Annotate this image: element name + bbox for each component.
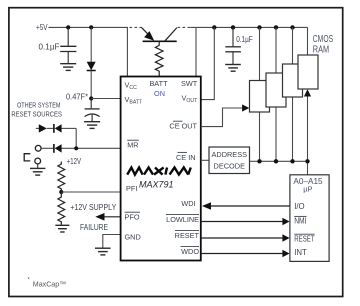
resistor R3 (base of Q1 to BATT ON): [155, 41, 163, 76]
RAM box 2: [266, 73, 286, 107]
wire SWT drop: [195, 27, 197, 76]
wire VBATT to IC: [91, 98, 120, 100]
svg-text:0.47F*: 0.47F*: [66, 92, 88, 101]
svg-text:GND: GND: [125, 233, 141, 242]
wire chip-enable bus: [250, 161, 308, 175]
junction dot bus 3: [290, 159, 294, 163]
svg-text:MR: MR: [127, 141, 138, 150]
diode D1 (vertical, pointing down): [87, 27, 96, 98]
svg-text:MaxCap™: MaxCap™: [33, 279, 67, 288]
RAM box 3: [283, 64, 303, 97]
wire WDO to INT with arrow: [201, 250, 290, 257]
junction dot PFI node: [59, 190, 63, 194]
wire reset sources upper line: [36, 128, 76, 148]
junction dot bus 1: [257, 159, 261, 163]
svg-text:+5V: +5V: [36, 23, 48, 32]
pin PFO label: [125, 212, 141, 221]
wire CE OUT with arrow: [201, 104, 249, 126]
capacitor C2 0.47F (polarized): [85, 99, 100, 122]
diode D2 (pointing right): [39, 124, 47, 132]
ground for R2: [55, 225, 69, 232]
junction dot bus 4: [305, 159, 309, 163]
svg-text:RAM: RAM: [313, 44, 329, 55]
junction dot C3 tap: [231, 25, 235, 29]
diode D3 (pointing left, shared bar): [54, 124, 62, 133]
svg-text:MAX791: MAX791: [139, 180, 174, 190]
node VBATT junction dot: [89, 96, 93, 100]
svg-text:CMOS: CMOS: [313, 34, 333, 45]
pin LOWLINE label: [166, 214, 199, 223]
svg-text:RESET: RESET: [175, 231, 200, 240]
svg-text:+12V SUPPLY: +12V SUPPLY: [70, 203, 117, 212]
transistor Q1 emitter dashed wire: [130, 26, 142, 28]
svg-text:I/O: I/O: [294, 202, 304, 211]
svg-text:NMI: NMI: [294, 217, 306, 226]
junction dot at diode tap: [89, 25, 93, 29]
svg-text:µP: µP: [303, 184, 312, 193]
svg-text:SWT: SWT: [181, 79, 198, 88]
wire RAM power drops: [260, 27, 308, 80]
capacitor C3 0.1uF: [225, 27, 241, 64]
svg-text:PFI: PFI: [126, 184, 137, 193]
svg-text:RESET: RESET: [294, 234, 315, 243]
ground for C3: [225, 65, 241, 72]
wire WDI with arrow: [202, 202, 290, 209]
pin RESET label: [175, 231, 200, 240]
wire VOUT riser: [201, 27, 214, 99]
wire CE IN: [201, 159, 209, 161]
wire PFI: [61, 191, 120, 193]
ADDRESS DECODE box: [209, 147, 250, 174]
junction dot MR node: [74, 146, 78, 150]
ground for C2: [84, 122, 100, 129]
logo MAXIM: [127, 168, 188, 175]
wire RAM chip-enable drops: [260, 95, 308, 162]
svg-text:0.1µF: 0.1µF: [39, 42, 60, 51]
wire PFO with arrow: [95, 213, 120, 221]
transistor Q1: [142, 27, 177, 41]
junction dot RAM3 tap: [290, 25, 294, 29]
junction dot VOUT riser: [212, 25, 216, 29]
pin RESET label (uP): [294, 234, 315, 243]
pin CE OUT label: [169, 121, 197, 130]
pin NMI label: [294, 216, 306, 225]
capacitor C1 0.1uF: [60, 27, 76, 63]
svg-text:CE OUT: CE OUT: [169, 122, 197, 131]
wire RESET with arrow: [201, 234, 290, 241]
resistor R1: [58, 162, 65, 192]
wire collector dashed: [178, 26, 191, 28]
wire +5V rail left segment: [49, 26, 128, 28]
svg-text:WDO: WDO: [181, 247, 199, 256]
svg-text:DECODE: DECODE: [214, 162, 246, 171]
wire GND pin: [103, 235, 121, 248]
wire LOWLINE to NMI with arrow: [201, 218, 290, 225]
junction dot at 0.1uF tap: [66, 25, 70, 29]
ground for SW1: [30, 164, 45, 175]
svg-text:CE IN: CE IN: [176, 153, 195, 162]
pin CE IN label: [176, 152, 195, 161]
wire MR line: [41, 147, 120, 149]
logo MAXIM final stroke: [188, 168, 191, 175]
RAM box 4: [298, 55, 318, 89]
svg-text:BATT: BATT: [149, 79, 168, 88]
pin WDO label: [181, 246, 200, 255]
resistor R2: [58, 192, 65, 225]
svg-text:INT: INT: [294, 248, 307, 257]
wire VCC drop: [126, 27, 128, 76]
svg-text:ADDRESS: ADDRESS: [212, 150, 248, 159]
svg-text:WDI: WDI: [181, 199, 195, 208]
arrow into RAM box 4: [304, 89, 311, 96]
pushbutton switch SW1: [24, 145, 41, 164]
RAM box 1: [250, 81, 270, 113]
pin MR label: [127, 140, 139, 149]
diode D4 (pointing left): [54, 144, 62, 153]
junction dot bus 2: [274, 159, 278, 163]
ground for GND pin: [95, 248, 111, 255]
junction dot RAM1 tap: [257, 25, 261, 29]
wire +5V rail right segment: [190, 26, 307, 28]
IC U1 MAX791 box: [121, 77, 201, 261]
svg-text:+12V: +12V: [67, 157, 82, 166]
svg-text:ON: ON: [154, 89, 165, 98]
svg-text:0.1µF: 0.1µF: [236, 35, 253, 44]
svg-text:FAILURE: FAILURE: [80, 223, 108, 232]
junction dot RAM2 tap: [274, 25, 278, 29]
svg-text:PFO: PFO: [125, 213, 140, 222]
ground for C1: [60, 64, 76, 71]
uP box: [290, 175, 329, 262]
svg-text:OTHER SYSTEM: OTHER SYSTEM: [17, 101, 61, 110]
svg-text:LOWLINE: LOWLINE: [166, 215, 199, 224]
svg-text:RESET SOURCES: RESET SOURCES: [11, 109, 62, 118]
